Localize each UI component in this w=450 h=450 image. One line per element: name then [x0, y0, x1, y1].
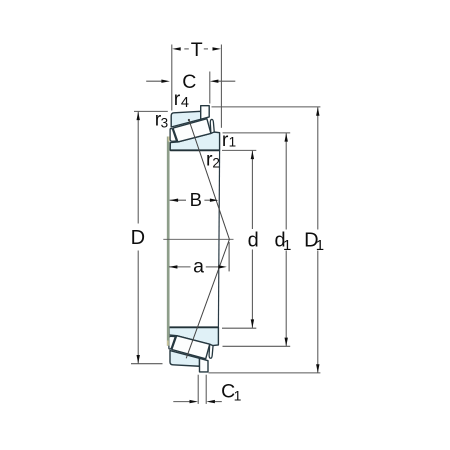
- bearing upper half section: [170, 106, 220, 151]
- svg-text:a: a: [193, 256, 204, 278]
- dimension D1: [209, 107, 321, 373]
- svg-text:1: 1: [316, 237, 324, 254]
- yellow tint top of green edge: [168, 137, 170, 142]
- face projection edge (right): [218, 150, 219, 327]
- svg-text:1: 1: [229, 135, 237, 150]
- svg-text:1: 1: [283, 237, 291, 254]
- bearing lower half section (mirrored): [169, 327, 219, 372]
- dimension a: [169, 266, 191, 268]
- svg-text:D: D: [131, 227, 145, 249]
- construction line start dot: [188, 119, 190, 121]
- svg-text:B: B: [190, 189, 202, 210]
- svg-text:d: d: [248, 230, 259, 252]
- svg-text:4: 4: [181, 95, 189, 111]
- svg-text:2: 2: [212, 155, 220, 170]
- svg-text:T: T: [191, 39, 203, 61]
- green shaft-washer edge line: [167, 137, 170, 346]
- dimension C: [146, 72, 235, 104]
- cone apex construction line upper: [189, 119, 230, 239]
- svg-text:C: C: [182, 71, 196, 93]
- dimension B: [170, 199, 186, 201]
- centerline: [163, 238, 233, 240]
- cone apex construction line lower: [186, 239, 229, 358]
- dimension d1: [223, 133, 291, 346]
- dimension d: [222, 150, 256, 328]
- dimension T: [172, 45, 222, 128]
- dimension D: [131, 111, 168, 363]
- svg-text:3: 3: [161, 115, 169, 130]
- svg-text:1: 1: [234, 388, 242, 404]
- dimension C1: [173, 375, 222, 404]
- yellow tint bottom of green edge: [167, 341, 169, 346]
- svg-text:r: r: [174, 88, 181, 110]
